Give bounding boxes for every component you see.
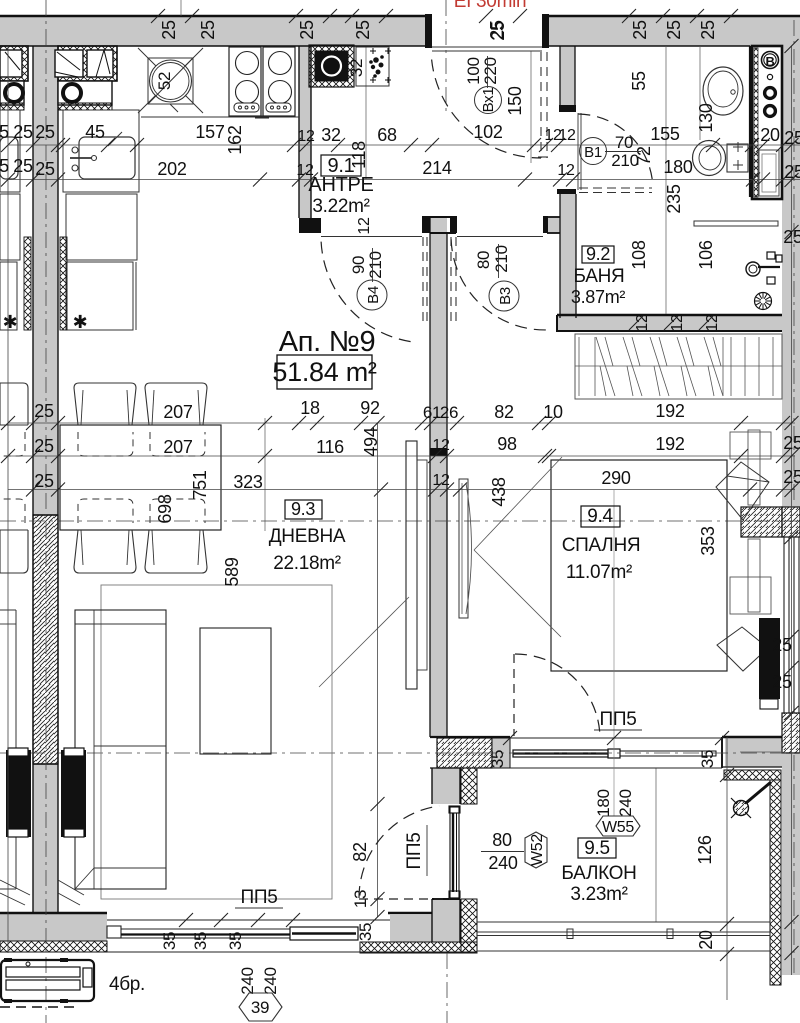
cap: entry door jambs <box>425 14 432 48</box>
svg-text:БАНЯ: БАНЯ <box>574 266 625 287</box>
svg-text:698: 698 <box>155 494 175 523</box>
svg-text:12: 12 <box>356 217 373 235</box>
parapet: balcony west crosshatch <box>461 768 477 804</box>
svg-text:210: 210 <box>366 251 385 278</box>
fixture: extractor fan rosette <box>755 293 772 310</box>
svg-text:192: 192 <box>655 401 684 421</box>
cap: kitchen wall bottom <box>299 218 321 233</box>
leader: boiler pointer <box>170 104 178 112</box>
window: living south window ПП5 <box>107 919 390 921</box>
svg-text:52: 52 <box>155 72 174 90</box>
svg-text:82: 82 <box>350 842 370 862</box>
door tag B1 <box>580 138 607 165</box>
symbol: pipe riser 2 <box>765 106 776 117</box>
shaft: bathroom installation shaft frame <box>752 46 782 199</box>
svg-text:235: 235 <box>664 184 684 213</box>
svg-text:106: 106 <box>696 240 716 269</box>
dim row A y=145 <box>8 144 800 146</box>
wall: hatch pier balcony west top <box>437 738 492 768</box>
parapet: south crosshatch west <box>0 941 107 952</box>
svg-text:68: 68 <box>377 125 397 145</box>
room 9.4 bedroom <box>581 506 620 527</box>
axis line through balcony window <box>480 752 800 754</box>
hexagon 39 <box>239 993 282 1021</box>
svg-text:25: 25 <box>353 20 373 40</box>
svg-text:ПП5: ПП5 <box>404 833 425 870</box>
svg-text:39: 39 <box>251 998 269 1017</box>
window: bedroom east window <box>783 537 785 713</box>
svg-text:СПАЛНЯ: СПАЛНЯ <box>562 535 641 556</box>
door tag B3 <box>489 281 519 311</box>
svg-text:25: 25 <box>784 162 800 182</box>
dim row E y=489.5 <box>8 489 795 491</box>
svg-text:25: 25 <box>34 436 54 456</box>
wardrobe: bedroom closet hatch <box>575 334 782 399</box>
window: W52 sidelight segment <box>290 927 358 940</box>
room 9.1 hall <box>321 155 361 176</box>
fixture: bath sink oval <box>703 67 743 115</box>
svg-text:220: 220 <box>481 57 500 84</box>
fixture: hall decor box <box>356 47 389 86</box>
svg-text:102: 102 <box>473 122 502 142</box>
door B4 threshold <box>321 236 422 238</box>
cap: hall-living wall mid black <box>430 448 447 456</box>
svg-text:Ап. №9: Ап. №9 <box>279 326 376 358</box>
svg-text:ДНЕВНА: ДНЕВНА <box>269 526 346 547</box>
svg-text:12: 12 <box>558 127 576 144</box>
fixture: hall vent shaft <box>309 45 354 87</box>
door B1 swing arc <box>578 114 653 185</box>
wall edges <box>0 15 426 17</box>
svg-text:55: 55 <box>629 71 649 91</box>
svg-text:25: 25 <box>34 401 54 421</box>
svg-text:80: 80 <box>474 251 493 269</box>
dashed niche lines in hall <box>540 52 542 158</box>
svg-text:9.3: 9.3 <box>291 499 315 519</box>
window: balcony window ПП5/W55 <box>510 737 722 739</box>
svg-text:25: 25 <box>35 122 55 142</box>
svg-text:12: 12 <box>297 128 315 145</box>
fixture: boiler 52 <box>148 58 193 104</box>
wall: right exterior wall lower <box>782 752 800 975</box>
furniture: TV panel bedroom <box>459 479 468 618</box>
dim vertical: living col <box>264 418 266 531</box>
dim vertical: entry 150 line <box>530 51 532 163</box>
svg-text:В3: В3 <box>497 287 514 305</box>
furniture: tucked chairs dashed <box>78 432 133 456</box>
wall: bath west wall lower <box>560 194 576 318</box>
wall: right exterior wall upper <box>782 16 800 507</box>
railing: balcony parapet south <box>477 921 770 923</box>
window sill: bedroom interior <box>748 430 760 505</box>
svg-text:202: 202 <box>157 159 186 179</box>
neighbor: table edge <box>0 424 28 426</box>
door W55 swing arc + leaf <box>515 654 600 732</box>
wall: party wall upper gray <box>33 46 58 515</box>
svg-text:162: 162 <box>225 125 245 154</box>
wall: bath south wall <box>557 315 782 332</box>
svg-text:25: 25 <box>664 20 684 40</box>
svg-text:✱: ✱ <box>3 312 18 332</box>
wall: kitchen-hall wall <box>299 46 311 218</box>
dim vertical: bathroom chain <box>665 46 667 314</box>
hexagon W52 <box>525 832 547 868</box>
bedroom south pier edges <box>722 736 782 738</box>
svg-text:В4: В4 <box>365 286 382 304</box>
svg-text:9.4: 9.4 <box>587 506 613 527</box>
svg-text:26: 26 <box>440 403 458 422</box>
dim vertical: top margin tick line <box>180 0 182 16</box>
parapet: south crosshatch mid <box>360 942 477 953</box>
svg-text:25: 25 <box>13 122 33 142</box>
svg-text:35: 35 <box>356 923 375 941</box>
furniture: rug <box>101 585 332 899</box>
svg-text:180: 180 <box>663 157 692 177</box>
axis: party wall centerline <box>45 0 47 1023</box>
svg-text:Вх1: Вх1 <box>480 88 497 113</box>
furniture: sofa chaise corner <box>58 880 84 895</box>
south wall edges <box>0 912 107 914</box>
svg-text:210: 210 <box>611 151 638 170</box>
svg-text:35: 35 <box>160 932 179 950</box>
svg-text:80: 80 <box>492 830 512 850</box>
svg-text:240: 240 <box>238 967 257 994</box>
svg-text:51.84 m²: 51.84 m² <box>272 357 376 387</box>
svg-text:25: 25 <box>159 20 179 40</box>
wall: top exterior wall left segment <box>0 16 426 46</box>
door B3 swing arc <box>451 239 548 330</box>
axis: horizontal building axis 2 <box>0 752 480 754</box>
svg-text:9.2: 9.2 <box>586 244 610 264</box>
svg-text:192: 192 <box>655 434 684 454</box>
door Bx1 threshold lines <box>432 46 542 48</box>
dim row C y=423 <box>8 422 795 424</box>
wall: top exterior wall right segment <box>542 16 800 46</box>
furniture: coffee table <box>200 628 271 754</box>
wall: hatch pier right ext lower <box>782 713 800 753</box>
svg-text:АНТРЕ: АНТРЕ <box>308 174 373 196</box>
symbol: circled B in shaft <box>762 52 779 69</box>
svg-text:207: 207 <box>163 402 192 422</box>
furniture: headboard shelves <box>730 432 771 459</box>
svg-text:25: 25 <box>783 467 800 487</box>
wall: hatch pier right ext upper <box>782 507 800 537</box>
svg-text:25: 25 <box>783 227 800 247</box>
fixture: kitchen sink 45 <box>63 110 139 192</box>
symbol: small pipe circle <box>767 74 772 79</box>
svg-text:ПП5: ПП5 <box>241 887 278 908</box>
svg-text:EI 30min: EI 30min <box>454 0 527 12</box>
balcony sw pier edges <box>430 736 510 738</box>
svg-text:35: 35 <box>488 750 507 768</box>
door B4 swing arc <box>321 242 413 342</box>
neighbor: washing machine <box>0 81 24 105</box>
wall: hall-living wall <box>430 217 447 737</box>
svg-text:B: B <box>765 54 774 69</box>
furniture: chairs bottom row <box>74 530 136 573</box>
cap: bath west wall top of lower part <box>557 189 576 194</box>
svg-text:353: 353 <box>698 526 718 555</box>
cap: party wall hatch ends <box>33 514 58 516</box>
hexagon W55 <box>596 816 640 836</box>
dim row D y=456 <box>8 455 795 457</box>
neighbor: base cabinets <box>0 194 20 260</box>
svg-text:155: 155 <box>650 124 679 144</box>
svg-text:ПП5: ПП5 <box>600 709 637 730</box>
neighbor: sofa <box>15 610 17 889</box>
fixture: stove 4 burners <box>229 47 261 116</box>
svg-text:207: 207 <box>163 437 192 457</box>
dim vertical: 118 line <box>365 47 367 179</box>
svg-text:240: 240 <box>488 853 517 873</box>
top wall tick marks <box>151 9 165 23</box>
kitchen counter front edge <box>141 116 299 118</box>
svg-text:25: 25 <box>630 20 650 40</box>
svg-text:32: 32 <box>321 125 341 145</box>
room 9.3 living <box>285 500 322 519</box>
room 9.5 balcony <box>578 838 616 858</box>
door B1 jamb line <box>577 113 579 190</box>
wall: bedroom south pier <box>725 738 782 767</box>
svg-text:12: 12 <box>432 437 450 454</box>
dim col x=614 W55 <box>613 490 615 816</box>
AC unit outdoor <box>1 960 94 1001</box>
furniture: dining table <box>60 425 221 530</box>
furniture: chairs top row <box>74 383 136 425</box>
door tag Bx1 <box>475 87 502 114</box>
svg-text:3.23m²: 3.23m² <box>570 884 627 905</box>
svg-text:92: 92 <box>360 398 380 418</box>
door tag B4 <box>357 280 387 310</box>
parapet: balcony NE crosshatch strip <box>724 770 781 780</box>
lamp: balcony wall light <box>746 782 771 803</box>
svg-text:494: 494 <box>361 427 381 456</box>
svg-text:25: 25 <box>13 156 33 176</box>
fixture: washing machine <box>58 81 112 105</box>
svg-text:18: 18 <box>300 398 320 418</box>
fixture: shower mixer <box>746 262 760 276</box>
svg-text:4бр.: 4бр. <box>109 974 145 995</box>
svg-text:323: 323 <box>233 472 262 492</box>
wall: bath west wall upper stub <box>560 46 575 107</box>
svg-text:150: 150 <box>505 86 525 115</box>
neighbor: TV black cabinet <box>6 750 31 837</box>
dim vertical: balcony col <box>655 768 657 922</box>
column: bedroom window pier hatch <box>741 507 782 537</box>
dim col x=377 (494) <box>377 423 379 917</box>
svg-text:22.18m²: 22.18m² <box>273 553 341 574</box>
svg-text:157: 157 <box>195 122 224 142</box>
dim col balcony x=727 <box>726 737 728 1000</box>
svg-text:214: 214 <box>422 158 451 178</box>
svg-text:25: 25 <box>698 20 718 40</box>
ticks south window <box>179 913 193 927</box>
svg-text:25: 25 <box>784 128 800 148</box>
svg-text:210: 210 <box>492 245 511 272</box>
wall: living south wall mid segment <box>390 915 432 942</box>
wall: living south wall west segment <box>0 914 107 941</box>
svg-text:130: 130 <box>696 103 716 132</box>
svg-text:11.07m²: 11.07m² <box>566 562 632 583</box>
svg-text:5: 5 <box>0 156 9 176</box>
fixture: kitchen counter hatch strip <box>58 103 112 110</box>
svg-text:126: 126 <box>695 835 715 864</box>
svg-text:25: 25 <box>783 433 800 453</box>
svg-text:БАЛКОН: БАЛКОН <box>561 863 636 884</box>
svg-text:35: 35 <box>698 750 717 768</box>
wall: balcony west gray pier upper <box>432 768 460 804</box>
room 9.2 bath <box>582 246 614 263</box>
axis: horizontal building axis 1 <box>0 520 800 522</box>
fixture: cabinet hatch strips on party wall <box>24 237 31 330</box>
svg-text:W55: W55 <box>602 819 634 836</box>
wall: party wall lower gray <box>33 764 58 914</box>
fixture: kitchen base cabinets <box>66 194 137 260</box>
svg-text:61: 61 <box>423 403 441 422</box>
svg-text:32: 32 <box>347 59 366 77</box>
svg-text:25: 25 <box>488 21 508 41</box>
wall: bath door stub <box>547 217 560 233</box>
furniture: pillow top <box>716 462 769 520</box>
dim col left x=8 <box>7 46 9 953</box>
furniture: pillow bottom <box>717 627 768 671</box>
cap: bath stub left <box>543 216 548 233</box>
door Bx1 swing arc <box>432 60 541 159</box>
marks: tiles plus signs <box>733 146 743 148</box>
svg-text:108: 108 <box>629 240 649 269</box>
cap: hall-living wall top <box>422 216 430 233</box>
bath south wall edges <box>557 314 782 316</box>
svg-text:9.5: 9.5 <box>584 838 610 859</box>
svg-text:5: 5 <box>0 122 9 142</box>
leader: TV pointer <box>319 597 409 687</box>
door W52 swing arc + leaf <box>359 806 439 898</box>
door B3 threshold <box>457 236 543 238</box>
svg-text:98: 98 <box>497 434 517 454</box>
svg-text:82: 82 <box>494 402 514 422</box>
svg-text:20: 20 <box>696 930 716 950</box>
axis: w52 door axis bottom <box>446 953 448 1023</box>
svg-text:20: 20 <box>760 125 780 145</box>
shaft inner boxes <box>759 150 779 196</box>
axis: right wall centerline <box>505 15 794 17</box>
svg-text:35: 35 <box>191 932 210 950</box>
svg-text:В1: В1 <box>584 144 602 161</box>
cap: bath west wall stub bottom <box>559 105 576 112</box>
dim col right x=791.5 <box>791 46 793 975</box>
svg-text:35: 35 <box>226 932 245 950</box>
furniture: TV cabinet living <box>406 441 417 689</box>
fixture: bath shelf <box>694 221 778 226</box>
svg-text:45: 45 <box>85 122 105 142</box>
neighbor: sink <box>0 110 20 192</box>
radiator: bedroom <box>759 618 780 699</box>
svg-text:589: 589 <box>222 557 242 586</box>
svg-text:25: 25 <box>198 20 218 40</box>
svg-text:W52: W52 <box>529 834 546 866</box>
parapet: balcony east crosshatch column <box>770 780 781 985</box>
neighbor: chairs <box>0 383 28 425</box>
wall: party wall hatched section <box>33 515 58 764</box>
svg-text:10: 10 <box>543 402 563 422</box>
svg-text:438: 438 <box>489 477 509 506</box>
axis: entry firewall line <box>445 0 447 111</box>
furniture: TV black cabinet on party wall <box>61 750 86 837</box>
dashed lintel over B1 door <box>579 187 652 189</box>
svg-text:12: 12 <box>557 162 575 179</box>
leader: TV viewing lines <box>474 457 562 550</box>
fixture: kitchen tall cabinet (crosshatched) <box>58 46 117 81</box>
svg-text:240: 240 <box>261 967 280 994</box>
svg-text:3.22m²: 3.22m² <box>312 196 369 217</box>
wall: balcony west gray pier lower <box>432 899 460 942</box>
svg-text:240: 240 <box>616 789 635 816</box>
dashed lines above hall-living wall <box>422 237 424 327</box>
svg-text:116: 116 <box>316 437 344 457</box>
neighbor: mirrored kitchen cabinet <box>0 46 28 81</box>
furniture: bed <box>551 460 727 671</box>
svg-text:12: 12 <box>432 472 450 489</box>
door W52 glazed balcony door <box>450 807 459 898</box>
svg-text:290: 290 <box>601 468 630 488</box>
svg-text:3.87m²: 3.87m² <box>571 287 626 307</box>
svg-text:25: 25 <box>772 672 792 692</box>
svg-text:✱: ✱ <box>73 312 88 332</box>
svg-text:180: 180 <box>594 789 613 816</box>
svg-text:25: 25 <box>772 635 792 655</box>
dim row B y=179.5 <box>8 179 800 181</box>
fixture: toilet <box>727 144 748 172</box>
svg-text:25: 25 <box>297 20 317 40</box>
svg-text:25: 25 <box>34 471 54 491</box>
furniture: sofa <box>75 610 166 889</box>
svg-text:25: 25 <box>35 159 55 179</box>
svg-text:751: 751 <box>190 470 210 499</box>
symbol: pipe riser 1 <box>765 88 776 99</box>
